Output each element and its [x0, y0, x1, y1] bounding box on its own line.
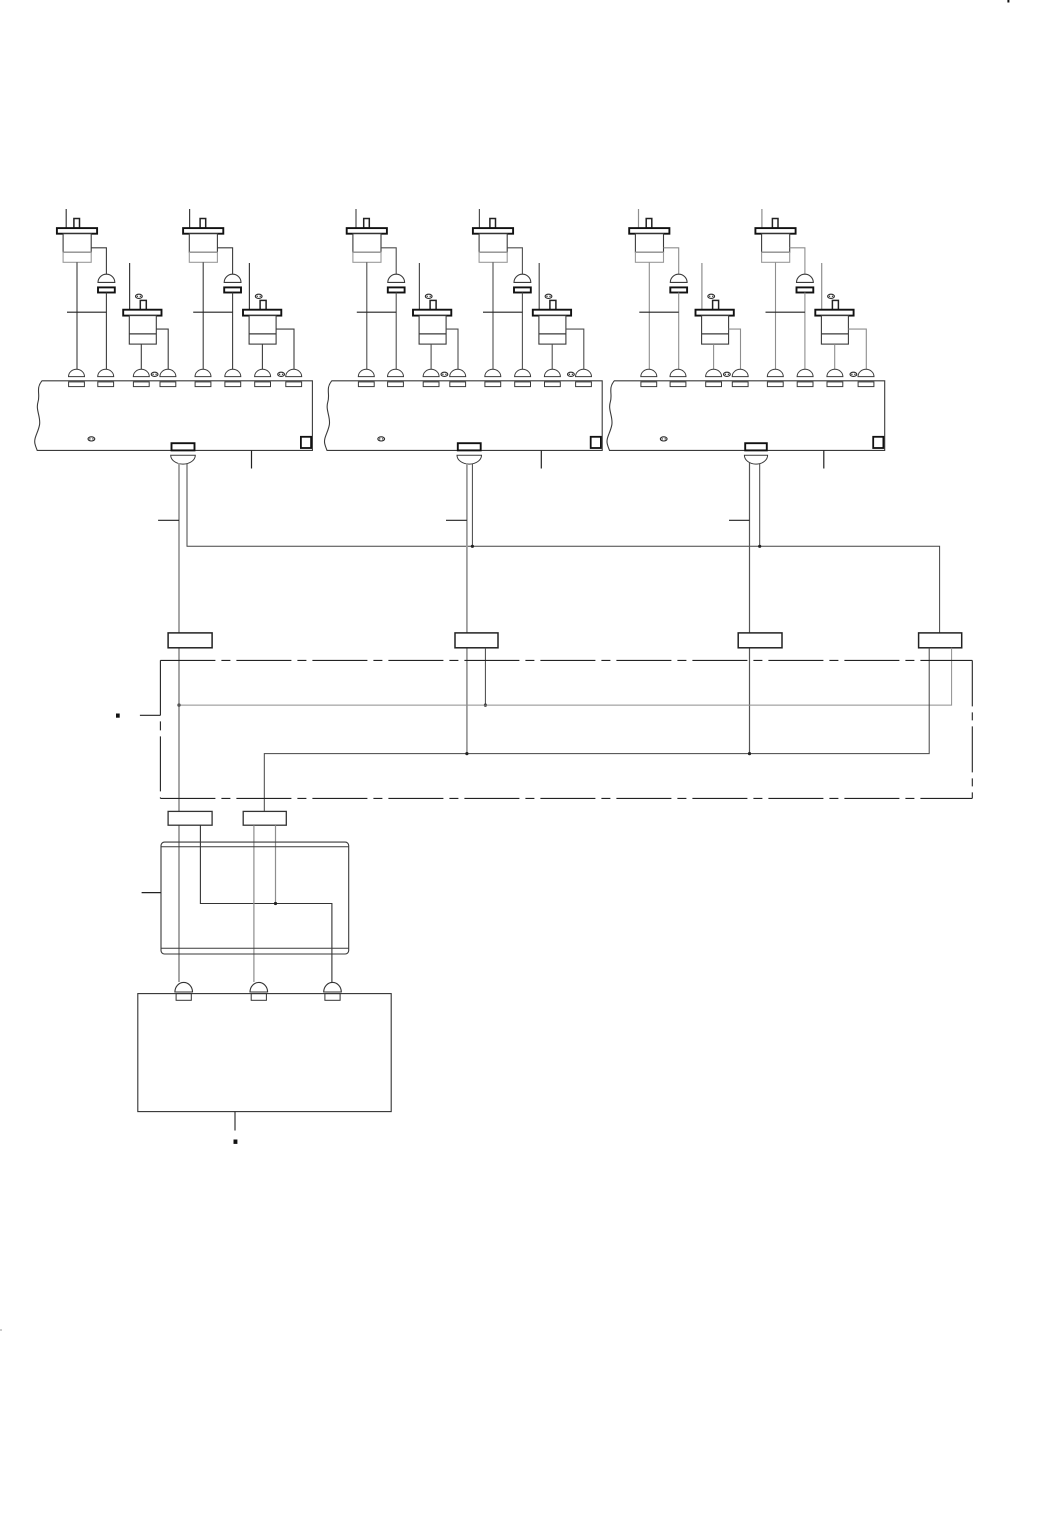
rail A2 plug dome 5 — [485, 369, 501, 376]
bus N2 (gray) XT1 to XT4 — [179, 648, 952, 705]
rail A3 plug dome 4 — [732, 369, 748, 376]
rail A1 stub line — [251, 450, 253, 468]
rail A3 pad 7 — [827, 382, 843, 387]
enclosure reference tick — [140, 714, 161, 716]
rail A2 pad 5 — [485, 382, 501, 387]
junction cable W3b on bus N1 — [758, 545, 761, 548]
rail A3 plug dome 8 — [858, 369, 874, 376]
motor M1.4 label — [255, 294, 262, 298]
wire motor M2.2 to connector X2.6 — [507, 248, 522, 275]
wire motor M1.4 to rail pad 8 — [276, 329, 294, 370]
motor M1.4 shaft — [260, 300, 266, 309]
control box U1 — [138, 994, 391, 1112]
rail A2 pad 7 — [545, 382, 561, 387]
inline connector X2.2 socket — [388, 287, 405, 292]
tie bar under motor M1.1 — [67, 311, 106, 313]
inline connector X1.2 socket — [98, 287, 115, 292]
motor M3.4 shaft — [832, 300, 838, 309]
rail A1 pad 5 — [195, 382, 211, 387]
motor M1.3 shaft — [140, 300, 146, 309]
wire motor M3.4 to rail pad 7 — [834, 344, 836, 370]
motor M2.3 shaft wire stub — [418, 263, 420, 310]
motor M1.2 flange — [183, 228, 223, 234]
inline connector X3.6 socket — [797, 287, 814, 292]
motor M1.3 label — [136, 294, 143, 298]
wire connector X1.6 to rail pad 6 — [232, 293, 234, 371]
wire motor M2.1 to connector X2.2 — [381, 248, 396, 275]
rail A2 stub line — [540, 450, 542, 468]
rail A1 plug dome 2 — [98, 369, 114, 376]
rail A1 pad 3 — [133, 382, 149, 387]
wire XT6 pin b to junction J1 — [275, 825, 277, 903]
rail A3 pad 3 — [706, 382, 722, 387]
rail A3 plug dome 7 — [827, 369, 843, 376]
rail A3 pad 8 — [858, 382, 874, 387]
motor M2.2 shaft — [490, 219, 496, 229]
wire motor M1.3 to rail pad 3 — [140, 344, 142, 370]
wire connector X1.2 to rail pad 2 — [105, 293, 107, 371]
connector rail box A2 — [324, 381, 602, 451]
motor M3.4 body — [821, 316, 848, 345]
wire motor M2.4 to rail pad 7 — [551, 344, 553, 370]
enclosure boundary (dash-dot) top — [160, 659, 972, 661]
rail A2 plug dome 6 — [515, 369, 531, 376]
rail A2 pad 4 — [450, 382, 466, 387]
motor M1.1 end bell — [63, 252, 91, 262]
motor M2.1 end bell — [353, 252, 381, 262]
motor M3.3 flange — [696, 310, 734, 316]
rail A3 stub line — [823, 450, 825, 468]
motor M3.3 label — [708, 294, 715, 298]
motor M1.2 body — [189, 234, 217, 253]
rail A1 label — [88, 437, 95, 441]
rail A1 pad 7 — [255, 382, 271, 387]
rail A3 pad 2 — [670, 382, 686, 387]
reference tick on cable W2 — [446, 519, 467, 521]
terminal block XT6 — [243, 811, 286, 825]
motor M3.1 shaft — [646, 219, 652, 229]
motor M2.3 label — [425, 294, 432, 298]
rail A2 label between pads 3-4 — [441, 372, 448, 376]
rail A1 outlet socket — [172, 443, 195, 450]
motor M1.4 body — [249, 316, 276, 345]
wire motor M3.1 to rail pad 1 — [648, 262, 650, 370]
motor M3.4 end-bell seam — [821, 333, 848, 335]
motor M3.3 shaft — [713, 300, 719, 309]
rail A1 pad 8 — [286, 382, 302, 387]
rail A3 pad 6 — [797, 382, 813, 387]
inline connector X1.6 plug — [224, 274, 241, 282]
connector rail box A1 — [35, 381, 313, 451]
rail A2 plug dome 4 — [450, 369, 466, 376]
rail A1 plug dome 3 — [133, 369, 149, 376]
cable W2 conductor a (rail A2 down) — [466, 463, 468, 754]
motor M2.4 body — [539, 316, 566, 345]
motor M3.2 shaft wire stub — [761, 209, 763, 228]
terminal block XT2 — [455, 633, 498, 648]
inline connector X2.6 socket — [514, 287, 531, 292]
motor M2.4 end-bell seam — [539, 333, 566, 335]
cable W2 conductor b — [471, 464, 473, 547]
inline connector X3.6 plug — [797, 274, 814, 282]
motor M1.4 flange — [243, 310, 281, 316]
rail A3 outlet socket — [745, 443, 767, 450]
wire motor M2.2 to rail pad 5 — [492, 262, 494, 370]
wire motor M1.2 to rail pad 5 — [202, 262, 204, 370]
rail A2 plug dome 8 — [576, 369, 592, 376]
rail A1 label between pads 7-8 — [278, 372, 285, 376]
motor M3.2 end bell — [762, 252, 790, 262]
tie bar under motor M3.2 — [766, 311, 805, 313]
cable W3 conductor b — [759, 464, 761, 547]
rail A2 plug dome 7 — [544, 369, 560, 376]
inline connector X1.2 plug — [98, 274, 115, 282]
tie bar under motor M3.1 — [639, 311, 678, 313]
rail A2 plug dome 3 — [423, 369, 439, 376]
motor M2.3 shaft — [430, 300, 436, 309]
control box plug P1 dome — [175, 982, 193, 992]
bus N3 to lower terminal XT6 — [264, 648, 929, 812]
wire motor M1.1 to rail pad 1 — [76, 262, 78, 370]
motor M3.3 body — [702, 316, 729, 345]
connector rail box A3 — [607, 381, 885, 451]
rail A2 plug dome 1 — [358, 369, 374, 376]
wire motor M1.1 to connector X1.2 — [91, 248, 106, 275]
rail A1 plug dome 6 — [225, 369, 241, 376]
motor M2.3 body — [419, 316, 446, 345]
motor M2.2 shaft wire stub — [478, 209, 480, 228]
motor M3.4 label — [828, 294, 835, 298]
motor M2.2 flange — [473, 228, 513, 234]
motor M2.4 shaft wire stub — [538, 263, 540, 310]
junction XT2 pin on bus N2 — [484, 704, 487, 707]
motor M3.4 shaft wire stub — [821, 263, 823, 310]
motor M2.1 body — [353, 234, 381, 253]
motor M2.2 end bell — [479, 252, 507, 262]
rail A2 pad 2 — [388, 382, 404, 387]
wire motor M2.3 to rail pad 3 — [430, 344, 432, 370]
wire motor M2.3 to rail pad 4 — [446, 329, 458, 370]
reference tick on cable W3 — [729, 519, 750, 521]
inline connector X3.2 plug — [670, 274, 687, 282]
wire connector X3.2 to rail pad 2 — [678, 293, 680, 371]
rail A2 label — [378, 437, 385, 441]
rail A3 plug dome 2 — [670, 369, 686, 376]
page mark left edge — [0, 1329, 2, 1331]
rail A1 pad 1 — [69, 382, 85, 387]
rail A3 label between pads 3-4 — [724, 372, 731, 376]
control box ground stub — [234, 1112, 236, 1131]
rail A2 pad 1 — [358, 382, 374, 387]
control box plug P3 dome — [324, 982, 342, 992]
page mark top right — [1007, 0, 1009, 3]
ground reference mark — [234, 1140, 238, 1144]
wire motor M1.3 to rail pad 4 — [156, 329, 168, 370]
rail A3 plug dome 5 — [767, 369, 783, 376]
control box plug P3 pad — [325, 994, 340, 1001]
control box plug P2 pad — [251, 994, 266, 1001]
rail A2 plug dome 2 — [388, 369, 404, 376]
junction J1 — [274, 902, 277, 905]
rail A1 corner key square — [301, 437, 311, 448]
rail A1 pad 2 — [98, 382, 114, 387]
wire motor M3.4 to rail pad 8 — [848, 329, 866, 370]
duct box inner top line — [161, 846, 349, 848]
tie bar under motor M2.1 — [357, 311, 396, 313]
wire motor M3.3 to rail pad 3 — [713, 344, 715, 370]
terminal block XT4 — [919, 633, 962, 648]
wire motor M3.2 to connector X3.6 — [790, 248, 805, 275]
wire motor M1.2 to connector X1.6 — [217, 248, 232, 275]
motor M1.3 body — [129, 316, 156, 345]
motor M1.3 end-bell seam — [129, 333, 156, 335]
motor M1.3 shaft wire stub — [129, 263, 131, 310]
motor M2.1 shaft wire stub — [355, 209, 357, 228]
wire XT5 to junction J1 — [200, 825, 332, 982]
wire motor M3.2 to rail pad 5 — [775, 262, 777, 370]
wire motor M2.4 to rail pad 8 — [566, 329, 584, 370]
enclosure reference mark — [116, 714, 120, 718]
junction cable W2b on bus N1 — [471, 545, 474, 548]
rail A3 corner key square — [873, 437, 883, 448]
wire motor M3.1 to connector X3.2 — [664, 248, 679, 275]
rail A3 plug dome 3 — [706, 369, 722, 376]
rail A1 pad 6 — [225, 382, 241, 387]
motor M3.3 shaft wire stub — [701, 263, 703, 310]
enclosure boundary bottom — [160, 797, 972, 799]
motor M2.1 flange — [347, 228, 387, 234]
cable W1 conductor a (rail A1 down) — [178, 463, 180, 982]
motor M1.4 shaft wire stub — [248, 263, 250, 310]
rail A3 pad 1 — [641, 382, 657, 387]
motor M3.1 body — [635, 234, 663, 253]
motor M1.1 shaft — [74, 219, 80, 229]
rail A3 label — [660, 437, 667, 441]
rail A2 pad 8 — [576, 382, 592, 387]
motor M3.2 shaft — [772, 219, 778, 229]
motor M3.1 end bell — [635, 252, 663, 262]
motor M1.2 shaft wire stub — [189, 209, 191, 228]
motor M2.4 shaft — [550, 300, 556, 309]
DIN rail / duct box — [161, 842, 349, 954]
junction cable W2a on bus N3 — [465, 752, 468, 755]
control box plug P2 dome — [250, 982, 268, 992]
rail A1 label between pads 3-4 — [151, 372, 158, 376]
wire connector X3.6 to rail pad 6 — [804, 293, 806, 371]
wire motor M2.1 to rail pad 1 — [366, 262, 368, 370]
rail A2 pad 3 — [423, 382, 439, 387]
wire XT2 pin to bus N2 — [484, 648, 486, 705]
motor M1.1 body — [63, 234, 91, 253]
rail A1 pad 4 — [160, 382, 176, 387]
rail A1 plug dome 5 — [195, 369, 211, 376]
tie bar under motor M2.2 — [483, 311, 522, 313]
wire motor M1.4 to rail pad 7 — [261, 344, 263, 370]
inline connector X1.6 socket — [224, 287, 241, 292]
junction cable W1a on bus N2 — [177, 703, 180, 706]
rail A2 pad 6 — [515, 382, 531, 387]
rail A3 label between pads 7-8 — [850, 372, 857, 376]
motor M1.3 flange — [123, 310, 161, 316]
rail A1 plug dome 1 — [69, 369, 85, 376]
reference tick on cable W1 — [158, 519, 179, 521]
motor M2.3 end-bell seam — [419, 333, 446, 335]
motor M3.4 flange — [815, 310, 853, 316]
duct box inner bottom line — [161, 947, 349, 949]
rail A2 corner key square — [591, 437, 601, 448]
cable W3 conductor a (rail A3 down) — [749, 463, 751, 754]
motor M3.1 shaft wire stub — [638, 209, 640, 228]
wire connector X2.2 to rail pad 2 — [395, 293, 397, 371]
enclosure boundary right — [971, 660, 973, 798]
rail A1 plug dome 7 — [255, 369, 271, 376]
motor M1.2 end bell — [189, 252, 217, 262]
motor M2.1 shaft — [364, 219, 370, 229]
rail A3 pad 4 — [732, 382, 748, 387]
rail A1 plug dome 4 — [160, 369, 176, 376]
duct box reference tick — [142, 892, 161, 894]
motor M2.3 flange — [413, 310, 451, 316]
rail A2 outlet plug dome — [457, 455, 482, 464]
motor M2.4 flange — [533, 310, 571, 316]
rail A3 plug dome 1 — [641, 369, 657, 376]
rail A3 outlet plug dome — [744, 455, 767, 464]
motor M3.1 flange — [629, 228, 669, 234]
motor M1.1 flange — [57, 228, 97, 234]
motor M2.4 label — [545, 294, 552, 298]
enclosure boundary left — [159, 660, 161, 798]
rail A1 plug dome 8 — [286, 369, 302, 376]
rail A2 label between pads 7-8 — [568, 372, 575, 376]
motor M3.2 body — [762, 234, 790, 253]
motor M1.4 end-bell seam — [249, 333, 276, 335]
motor M3.3 end-bell seam — [702, 333, 729, 335]
wire connector X2.6 to rail pad 6 — [521, 293, 523, 371]
wire XT6 pin a to plug P2 — [253, 825, 255, 982]
rail A2 outlet socket — [458, 443, 481, 450]
inline connector X2.2 plug — [388, 274, 405, 282]
junction cable W3a on bus N3 — [748, 752, 751, 755]
motor M1.2 shaft — [200, 219, 206, 229]
motor M1.1 shaft wire stub — [65, 209, 67, 228]
wire motor M3.3 to rail pad 4 — [729, 329, 741, 370]
motor M3.2 flange — [755, 228, 795, 234]
cable W1 conductor b — [187, 464, 940, 633]
tie bar under motor M1.2 — [193, 311, 232, 313]
terminal block XT5 — [168, 811, 212, 825]
rail A3 pad 5 — [767, 382, 783, 387]
terminal block XT1 — [168, 633, 212, 648]
rail A1 outlet plug dome — [171, 455, 196, 464]
inline connector X3.2 socket — [670, 287, 687, 292]
motor M2.2 body — [479, 234, 507, 253]
control box plug P1 pad — [176, 994, 191, 1001]
rail A3 plug dome 6 — [797, 369, 813, 376]
terminal block XT3 — [738, 633, 782, 648]
inline connector X2.6 plug — [514, 274, 531, 282]
